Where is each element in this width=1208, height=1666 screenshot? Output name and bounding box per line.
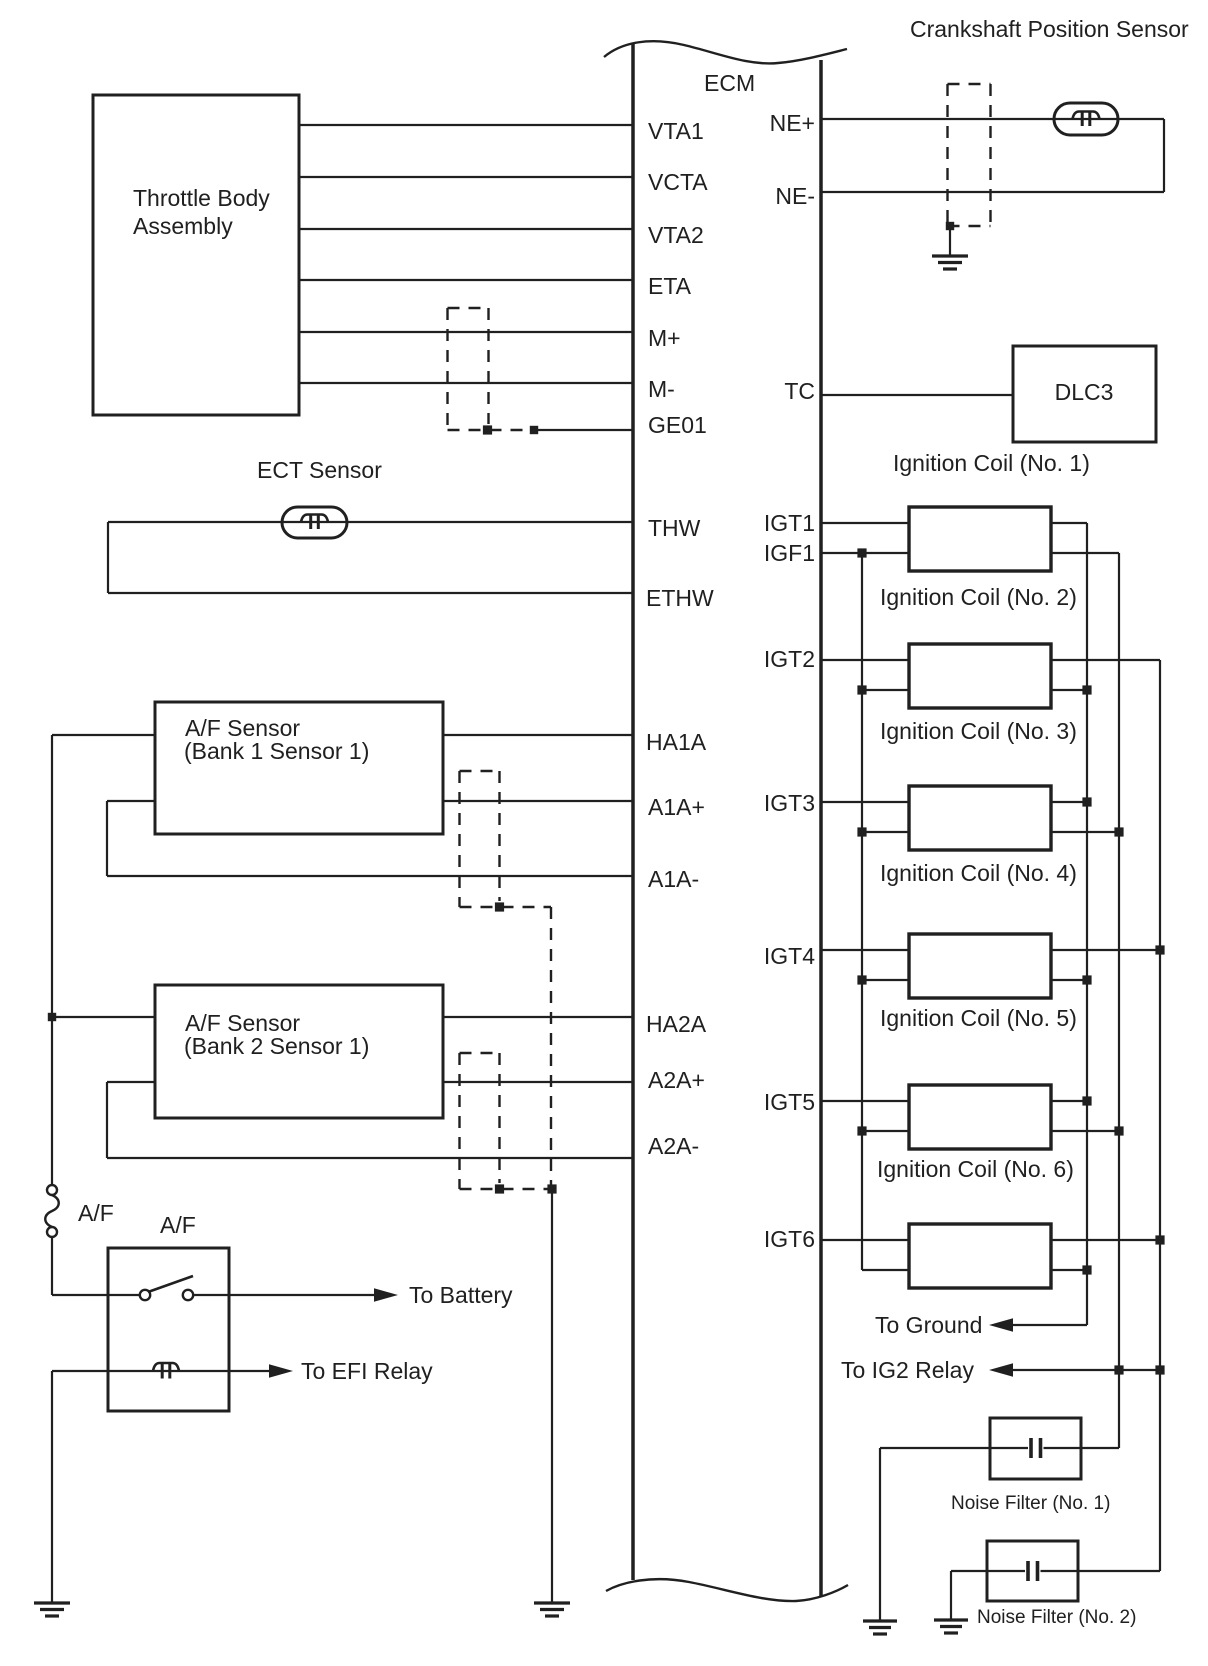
svg-text:ECM: ECM (704, 70, 755, 96)
svg-text:Ignition Coil (No. 1): Ignition Coil (No. 1) (893, 450, 1090, 476)
svg-text:IGT6: IGT6 (764, 1226, 815, 1252)
svg-text:VTA1: VTA1 (648, 118, 704, 144)
junction coil5 on bus B (1114, 1126, 1123, 1135)
A/F sensor (bank 2) box (155, 985, 443, 1118)
wire coil1 ground pin to bus A (1051, 522, 1087, 524)
shield (dashed) around M+/M- wires (446, 308, 448, 430)
wire ECT left loop (107, 522, 109, 593)
svg-text:A1A-: A1A- (648, 866, 699, 892)
junction coil4 on bus A (1082, 975, 1091, 984)
svg-text:(Bank 1 Sensor 1): (Bank 1 Sensor 1) (184, 738, 369, 764)
wire coil2 IGF stub (862, 689, 909, 691)
wire relay coil to ground (51, 1371, 53, 1603)
junction coil6 on bus A (1082, 1265, 1091, 1274)
ECT sensor thermistor symbol (282, 507, 347, 538)
wire relay coil line (52, 1370, 270, 1372)
wire To IG2 Relay link (1011, 1369, 1160, 1371)
arrow To Battery (374, 1288, 398, 1302)
wire coil5 +B pin (1051, 1130, 1119, 1132)
wire IGT4 (ECM to coil 4) (821, 949, 909, 951)
noise filter No.2 box (987, 1541, 1078, 1601)
wire crank shield to ground (949, 226, 951, 256)
svg-text:VCTA: VCTA (648, 169, 708, 195)
shield (dashed) around NE wires (946, 84, 948, 226)
ground (relay coil) (34, 1601, 70, 1604)
svg-text:HA2A: HA2A (646, 1011, 707, 1037)
wire IGT2 (ECM to coil 2) (821, 659, 909, 661)
svg-text:ECT Sensor: ECT Sensor (257, 457, 382, 483)
svg-text:IGT4: IGT4 (764, 943, 815, 969)
ground (noise filter 1) (863, 1619, 897, 1622)
arrow To EFI Relay (269, 1364, 293, 1378)
wire IGF common bus (861, 553, 863, 1270)
wire coil2 ground pin (1051, 689, 1087, 691)
ground (noise filter 2) (934, 1618, 968, 1621)
svg-text:NE+: NE+ (770, 110, 815, 136)
wire To Ground link (1011, 1324, 1087, 1326)
ignition coil No.4 box (909, 934, 1051, 998)
relay coil (153, 1363, 179, 1371)
shield drain dashed link (shield1 to shield2) (550, 907, 552, 1189)
wire VTA2 (299, 228, 633, 230)
relay A/F box (108, 1248, 229, 1411)
junction coil3 IGF (857, 827, 866, 836)
junction shield2 drain (495, 1184, 504, 1193)
shield (dashed) around A2A wires (458, 1053, 460, 1189)
svg-text:To EFI Relay: To EFI Relay (301, 1358, 433, 1384)
DLC3 box (1013, 346, 1156, 442)
wire coil3 +B pin (1051, 831, 1119, 833)
svg-text:TC: TC (784, 378, 815, 404)
shield (dashed) around A1A wires (458, 771, 460, 907)
ignition coil No.6 box (909, 1224, 1051, 1288)
wire THW (ECT sensor to ECM) (108, 521, 633, 523)
junction coil4 IGF (857, 975, 866, 984)
ECM torn bottom edge (wavy) (606, 1579, 848, 1601)
wire A1A- wrap (sensor left pin down) (107, 800, 155, 802)
wire coil6 IGF stub (bus end) (862, 1269, 909, 1271)
svg-text:To Battery: To Battery (409, 1282, 513, 1308)
wire IGT5 (ECM to coil 5) (821, 1100, 909, 1102)
svg-text:ETA: ETA (648, 273, 692, 299)
wire +B bus B (1118, 553, 1120, 1448)
ECM outline right edge (819, 60, 823, 1596)
wire HA1A heater supply (to A/F fuse bus) (52, 734, 155, 736)
svg-text:GE01: GE01 (648, 412, 707, 438)
svg-text:Crankshaft Position Sensor: Crankshaft Position Sensor (910, 16, 1189, 42)
wire noise filter1 to ground (879, 1448, 881, 1621)
junction coil2 IGF (857, 685, 866, 694)
wire noise filter2 to ground (950, 1571, 952, 1620)
wire M+ (299, 331, 633, 333)
wire fuse to relay switch (51, 1237, 53, 1295)
wire coil4 ground pin (1051, 979, 1087, 981)
junction GE01 drain (530, 426, 538, 434)
wire NE loop right (1163, 119, 1165, 192)
svg-text:Ignition Coil (No. 5): Ignition Coil (No. 5) (880, 1005, 1077, 1031)
ground (shield drain) (534, 1601, 570, 1604)
wire coil6 ground pin (1051, 1269, 1087, 1271)
junction coil5 on bus A (1082, 1096, 1091, 1105)
wire HA1A (sensor to ECM) (443, 734, 633, 736)
noise filter No.1 capacitor (880, 1447, 1028, 1449)
junction HA2A on A/F bus (48, 1013, 56, 1021)
svg-text:A/F: A/F (160, 1212, 196, 1238)
junction shield drain to ground wire (547, 1184, 556, 1193)
ignition coil No.1 box (909, 507, 1051, 571)
wire coil5 IGF stub (862, 1130, 909, 1132)
svg-text:M-: M- (648, 376, 675, 402)
svg-text:Throttle Body: Throttle Body (133, 185, 270, 211)
wire NE- (back to ECM) (821, 191, 1164, 193)
wire VCTA (299, 176, 633, 178)
ignition coil No.3 box (909, 786, 1051, 850)
wire coil4 IGF stub (862, 979, 909, 981)
wire HA2A heater supply (52, 1016, 155, 1018)
wire A/F bus (HA1A down to fuse) (51, 735, 53, 1185)
svg-text:A1A+: A1A+ (648, 794, 705, 820)
svg-text:IGT3: IGT3 (764, 790, 815, 816)
wire GE01 (shield drain to ECM) (534, 429, 633, 431)
svg-text:IGF1: IGF1 (764, 540, 815, 566)
svg-text:Noise Filter (No. 1): Noise Filter (No. 1) (951, 1493, 1110, 1514)
junction on shield drain (483, 425, 492, 434)
svg-text:A2A-: A2A- (648, 1133, 699, 1159)
wire +B bus C (1159, 660, 1161, 1571)
svg-text:M+: M+ (648, 325, 681, 351)
junction crank shield drain (946, 222, 954, 230)
wire switch to battery arrow (194, 1294, 376, 1296)
junction coil4 on bus C (1155, 945, 1164, 954)
wire ETHW (return) (108, 592, 633, 594)
wire A1A- (to ECM) (107, 875, 633, 877)
wire A2A+ (sensor to ECM) (443, 1081, 633, 1083)
svg-text:Ignition Coil (No. 4): Ignition Coil (No. 4) (880, 860, 1077, 886)
svg-text:To IG2 Relay: To IG2 Relay (841, 1357, 974, 1383)
wire coil2 +B pin to bus C (1051, 659, 1160, 661)
junction coil3 on bus A (1082, 797, 1091, 806)
wire M- (299, 382, 633, 384)
ECM outline left edge (631, 44, 635, 1580)
wire VTA1 (throttle body to ECM) (299, 124, 633, 126)
junction IG2 link on bus C (1155, 1365, 1164, 1374)
junction IG2 link on bus B (1114, 1365, 1123, 1374)
ground (crank sensor shield) (932, 254, 968, 257)
svg-text:Ignition Coil (No. 2): Ignition Coil (No. 2) (880, 584, 1077, 610)
arrow To IG2 Relay (989, 1363, 1013, 1377)
wire IGT1 (ECM to coil 1) (821, 522, 909, 524)
junction coil5 IGF (857, 1126, 866, 1135)
svg-text:NE-: NE- (775, 183, 815, 209)
svg-text:To Ground: To Ground (875, 1312, 982, 1338)
junction shield1 drain (495, 902, 504, 911)
svg-text:Ignition Coil (No. 3): Ignition Coil (No. 3) (880, 718, 1077, 744)
junction IGF bus start (857, 548, 866, 557)
wire HA2A (sensor to ECM) (443, 1016, 633, 1018)
svg-text:A/F: A/F (78, 1200, 114, 1226)
wire NE+ (ECM to sensor) (821, 118, 1164, 120)
noise filter No.2 capacitor (951, 1570, 1025, 1572)
noise filter No.1 box (990, 1418, 1081, 1479)
svg-text:ETHW: ETHW (646, 585, 714, 611)
junction coil6 on bus C (1155, 1235, 1164, 1244)
wire coil1 +B pin to bus B (1051, 552, 1119, 554)
wire shield drain to ground (551, 1189, 553, 1603)
svg-text:HA1A: HA1A (646, 729, 707, 755)
throttle body assembly box (93, 95, 299, 415)
svg-text:Noise Filter (No. 2): Noise Filter (No. 2) (977, 1607, 1136, 1628)
wire coil4 +B pin (1051, 949, 1160, 951)
fuse A/F (47, 1185, 57, 1195)
junction coil3 on bus B (1114, 827, 1123, 836)
A/F sensor (bank 1) box (155, 702, 443, 834)
ignition coil No.5 box (909, 1085, 1051, 1149)
wire ground bus A (1086, 523, 1088, 1325)
wire coil3 IGF stub (862, 831, 909, 833)
junction coil2 on bus A (1082, 685, 1091, 694)
ECM torn top edge (wavy) (604, 41, 847, 63)
wire coil6 +B pin (1051, 1239, 1160, 1241)
svg-text:Ignition Coil (No. 6): Ignition Coil (No. 6) (877, 1156, 1074, 1182)
wire A2A- wrap (107, 1081, 155, 1083)
wire IGT3 (ECM to coil 3) (821, 801, 909, 803)
relay switch contact (140, 1290, 150, 1300)
svg-text:IGT5: IGT5 (764, 1089, 815, 1115)
wire TC (ECM to DLC3) (821, 394, 1013, 396)
wire coil5 ground pin (1051, 1100, 1087, 1102)
wire A1A+ (sensor to ECM) (443, 800, 633, 802)
wire ETA (299, 279, 633, 281)
svg-text:IGT2: IGT2 (764, 646, 815, 672)
svg-text:DLC3: DLC3 (1055, 379, 1114, 405)
svg-text:(Bank 2 Sensor 1): (Bank 2 Sensor 1) (184, 1033, 369, 1059)
wire coil3 ground pin (1051, 801, 1087, 803)
svg-text:Assembly: Assembly (133, 213, 233, 239)
svg-text:VTA2: VTA2 (648, 222, 704, 248)
wire A2A- (to ECM) (107, 1157, 633, 1159)
wire IGF1 (ECM to coil 1 / IGF bus) (821, 552, 909, 554)
wire IGT6 (ECM to coil 6) (821, 1239, 909, 1241)
arrow To Ground (989, 1318, 1013, 1332)
svg-text:THW: THW (648, 515, 701, 541)
svg-text:IGT1: IGT1 (764, 510, 815, 536)
ignition coil No.2 box (909, 644, 1051, 708)
crankshaft sensor pickup coil symbol (1054, 103, 1118, 135)
svg-text:A2A+: A2A+ (648, 1067, 705, 1093)
